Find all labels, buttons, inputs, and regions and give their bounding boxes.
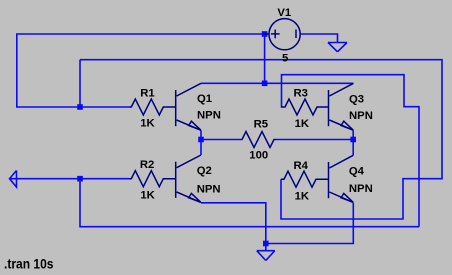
wire top rail right, around right side down to R4 left lead	[80, 60, 442, 219]
wire left row through arrow to R2	[10, 178, 130, 180]
junction at R5 left node	[198, 137, 204, 143]
wire junction to R1 left lead	[80, 106, 130, 108]
svg-text:NPN: NPN	[349, 110, 373, 122]
dangling wire arrow marker	[10, 171, 17, 188]
svg-text:1K: 1K	[295, 191, 310, 203]
transistor Q2	[176, 155, 201, 202]
wire V1+ down to collector rail	[264, 34, 266, 83]
ground near V1	[328, 43, 347, 52]
wire Q2 emitter to center ground	[201, 203, 266, 244]
svg-text:.tran 10s: .tran 10s	[4, 256, 54, 272]
wire center ground to Q4 emitter	[266, 203, 354, 244]
svg-text:NPN: NPN	[197, 110, 221, 122]
transistor Q3	[329, 83, 354, 130]
svg-text:1K: 1K	[140, 190, 155, 202]
wire Q4 collector up to node	[352, 140, 354, 156]
transistor Q1	[176, 83, 201, 130]
svg-text:1K: 1K	[295, 118, 310, 130]
junction at R1 left	[77, 104, 83, 110]
svg-text:R1: R1	[140, 88, 154, 100]
junction at R2 left	[77, 176, 83, 182]
junction at collector rail / V1	[262, 81, 268, 87]
svg-text:R5: R5	[254, 119, 268, 131]
svg-text:Q2: Q2	[197, 165, 212, 177]
wire V1- to ground stub	[300, 34, 338, 43]
svg-text:NPN: NPN	[197, 183, 221, 195]
junction at R5 right node	[350, 137, 356, 143]
resistor R1	[130, 99, 176, 115]
svg-text:Q4: Q4	[349, 165, 365, 177]
resistor R4	[281, 171, 328, 187]
wire R5 right lead to Q3/Q4 node	[276, 139, 354, 141]
junction at center ground	[263, 241, 269, 247]
svg-text:Q3: Q3	[349, 93, 364, 105]
svg-text:5: 5	[282, 53, 288, 65]
wire from top rail down to R1 junction	[79, 60, 81, 107]
wire Q1 emitter down to R5 node	[200, 130, 202, 139]
resistor R2	[130, 171, 176, 187]
wire Q2 collector up to R5 node	[200, 140, 202, 156]
wire collector rail Q1 to Q3	[201, 82, 354, 84]
svg-text:Q1: Q1	[197, 93, 212, 105]
resistor R3	[282, 99, 329, 115]
svg-text:R4: R4	[294, 160, 309, 172]
svg-text:R3: R3	[294, 88, 308, 100]
svg-text:R2: R2	[140, 159, 154, 171]
voltage source V1	[265, 19, 301, 50]
wire Q3 emitter down to node	[352, 130, 354, 139]
ground center bottom	[257, 244, 275, 261]
svg-text:100: 100	[249, 150, 268, 162]
svg-text:NPN: NPN	[349, 183, 373, 195]
svg-text:V1: V1	[277, 7, 291, 19]
wire bottom rail to R2 junction	[80, 179, 419, 227]
transistor Q4	[329, 155, 354, 202]
resistor R5	[242, 132, 276, 148]
wire R3 top rail around right down to bottom rail	[282, 75, 420, 227]
junction at V1+	[262, 31, 268, 37]
wire R5 node to R5 left lead	[201, 139, 242, 141]
svg-text:1K: 1K	[140, 117, 155, 129]
wire top-left rail from V1+ to left edge and down to R1 row	[17, 34, 265, 107]
